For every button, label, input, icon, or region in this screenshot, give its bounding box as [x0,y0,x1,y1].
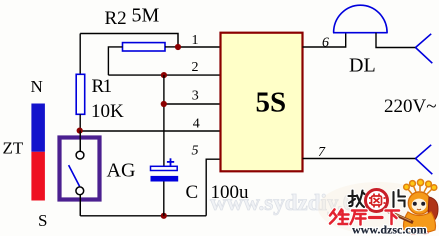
svg-text:ZT: ZT [3,139,24,158]
wire R2 right lead to pin1 node [165,46,178,48]
label R2 [105,8,127,29]
IC U1 5S [221,33,303,172]
svg-text:AG: AG [107,160,136,182]
label 5M [132,5,160,27]
node pin2 junction [161,72,167,78]
wire switch bottom to rail [79,195,81,216]
wire pin 3 [164,103,221,105]
label pin 7 [318,145,326,160]
wire vertical bus x164 [163,75,165,166]
capacitor C bottom plate [151,176,179,182]
resistor R2 [123,43,166,51]
switch AG bottom contact [76,187,84,195]
node pin1 junction [175,44,181,50]
svg-text:5S: 5S [256,87,287,119]
watermark faint url [210,190,354,215]
watermark mascot eyes [413,202,425,210]
bell DL base [333,32,388,34]
capacitor C plus sign [167,158,174,165]
label pin 5 [192,144,199,159]
capacitor C top plate [151,166,178,170]
svg-text:7: 7 [318,145,326,160]
svg-text:6: 6 [322,36,329,51]
label pin 2 [192,60,199,75]
svg-text:3: 3 [192,89,199,104]
magnet ZT north pole [31,104,45,152]
svg-text:4: 4 [193,117,200,132]
watermark char pian [394,190,406,207]
svg-text:N: N [31,77,43,96]
label AG [107,160,136,182]
svg-text:5M: 5M [132,5,160,27]
watermark chip icon [369,194,386,208]
svg-text:1: 1 [192,33,199,48]
node pin3 junction [161,101,167,107]
watermark mascot body [404,212,436,233]
wire top from R1 top to pin1 corner [80,34,178,48]
wire R2 left lead down to pin2 line [108,47,122,75]
svg-text:www.dzsc.com: www.dzsc.com [352,223,427,237]
label DL [349,55,376,77]
watermark mascot antennae [404,179,437,194]
label 100u [211,182,250,203]
svg-text:2: 2 [192,60,199,75]
watermark mascot wing [428,197,438,223]
watermark mascot arm handle [384,210,413,223]
svg-text:5: 5 [192,144,199,159]
switch AG top contact [76,151,84,159]
watermark glow backdrop [318,182,438,234]
svg-text:S: S [38,211,47,230]
label R1 [92,76,112,97]
resistor R1 [76,74,85,114]
bell DL dome [334,5,388,33]
label pin 3 [192,89,199,104]
svg-text:R2: R2 [105,8,127,29]
label N [31,77,43,96]
wire pin 5 [206,159,220,216]
watermark char wei [330,210,349,225]
watermark mascot head [408,192,430,214]
magnet ZT south pole [31,152,45,201]
label pin 4 [193,117,200,132]
wire R1 bottom to node [79,114,81,151]
label 220V~ [384,96,437,117]
terminal plug bottom [416,145,433,174]
label pin 1 [192,33,199,48]
switch AG lever [69,165,80,186]
label ZT [3,139,24,158]
label 10K [91,101,124,122]
svg-text:R1: R1 [92,76,112,97]
node R1-switch junction [77,128,83,134]
watermark magnifier circle [366,190,388,212]
wire pin 4 [80,130,221,132]
watermark mascot face [412,199,427,212]
svg-text:DL: DL [349,55,376,77]
wire capacitor bottom lead [163,182,165,216]
node rail-capacitor junction [161,213,167,219]
watermark char yi [370,215,383,220]
wire over AG box bottom [79,195,81,216]
watermark char zhao [349,191,365,208]
svg-text:C: C [186,182,199,203]
terminal plug top [416,34,433,63]
wire bell right lead [376,33,416,48]
label S [38,211,47,230]
IC label 5S [256,87,287,119]
svg-text:220V~: 220V~ [384,96,437,117]
wire pin 2 [108,74,220,76]
label C [186,182,199,203]
watermark url dzsc [352,223,427,237]
wire over AG box top [79,131,81,152]
watermark char xia [386,211,400,225]
wire pin 6 [303,33,346,47]
switch AG box [60,138,100,200]
wire pin 7 [303,158,416,160]
label pin 6 [322,36,329,51]
watermark mascot feet [410,230,429,235]
watermark char ku [351,211,367,225]
svg-text:10K: 10K [91,101,124,122]
wire bottom rail [80,215,206,217]
wire R1 top vertical [79,34,81,75]
wire pin 1 [178,46,221,48]
